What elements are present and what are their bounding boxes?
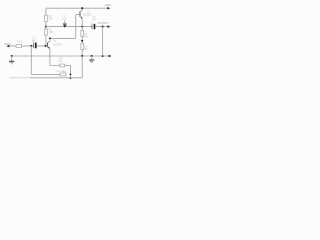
resistor R4 xyxy=(81,30,84,36)
node T2 collector at rail xyxy=(81,7,83,9)
T2 emitter lead with PNP arrow xyxy=(80,16,82,26)
wire return up to ground node xyxy=(81,56,83,78)
transistor T1 xyxy=(48,38,50,65)
node divider bottom xyxy=(102,55,104,57)
wire node to R1 xyxy=(45,27,47,29)
wire output tap vertical xyxy=(102,27,104,56)
wire C1 to T1 base xyxy=(37,45,48,47)
svg-text:BC559C: BC559C xyxy=(83,15,92,17)
ground rail xyxy=(12,55,109,57)
T1 collector lead xyxy=(48,38,50,43)
wire top +30V rail xyxy=(46,7,108,9)
ground rail arrowhead xyxy=(109,55,112,58)
wire R3 to C1 xyxy=(22,45,34,47)
node divider tap xyxy=(102,26,104,28)
wire R6 corner down xyxy=(70,66,72,79)
wire signal return bottom xyxy=(10,77,31,79)
potentiometer set gain xyxy=(60,73,66,76)
svg-text:SET GAIN: SET GAIN xyxy=(56,70,66,73)
node pot wiper xyxy=(70,74,72,76)
node R5 ground xyxy=(81,55,83,57)
T1 base bar xyxy=(47,42,49,47)
resistor R2 xyxy=(45,15,48,21)
node ground left xyxy=(11,55,13,57)
node output junction xyxy=(81,26,83,28)
T2 base lead xyxy=(76,14,80,16)
wire mid horizontal (feedback/output) xyxy=(46,26,92,28)
node T1 collector xyxy=(49,37,51,39)
node ground mid xyxy=(91,55,93,57)
wire input node down to gain pot xyxy=(30,46,32,75)
wire R2 to node xyxy=(45,21,47,26)
wire R5 to ground rail xyxy=(81,50,83,56)
resistor R1 xyxy=(45,29,48,35)
resistor R3 xyxy=(16,45,22,48)
svg-text:R3 1k: R3 1k xyxy=(17,41,24,43)
ground symbol left xyxy=(9,56,14,64)
capacitor C2 xyxy=(63,21,67,28)
T2 base bar xyxy=(79,11,81,16)
wire T1 collector to T2 base xyxy=(50,37,76,39)
node input shunt xyxy=(30,45,32,47)
svg-text:BC549C: BC549C xyxy=(53,45,62,47)
svg-text:10µ: 10µ xyxy=(62,18,67,20)
svg-text:1M0: 1M0 xyxy=(49,32,54,34)
node R6 to return xyxy=(69,77,71,79)
+30V arrowhead xyxy=(107,7,110,10)
svg-text:10µ: 10µ xyxy=(92,20,97,22)
OUTPUT arrowhead xyxy=(107,25,110,28)
capacitor C1 xyxy=(33,41,37,48)
wire input to R3 xyxy=(9,45,16,47)
svg-text:OUTPUT: OUTPUT xyxy=(98,21,109,25)
T1 emitter lead with NPN arrow xyxy=(48,47,50,66)
wire left bias chain vertical top xyxy=(45,8,47,15)
capacitor C3 xyxy=(91,22,95,29)
wire R4 to node xyxy=(81,37,83,44)
resistor R6 xyxy=(60,64,65,67)
transistor T2 xyxy=(76,8,83,26)
node bias-mid xyxy=(45,26,47,28)
wire T2 emitter chain xyxy=(81,27,83,31)
resistor R5 xyxy=(81,43,84,49)
node T1 base bias xyxy=(44,45,46,47)
T2 collector lead xyxy=(80,8,82,12)
ground symbol mid xyxy=(89,56,94,63)
wire R1 to base node xyxy=(45,35,47,46)
INPUT arrowhead xyxy=(6,45,9,48)
wire T1 emitter horizontal xyxy=(50,65,71,67)
node emitter divider xyxy=(81,40,83,42)
wire T2 base vertical xyxy=(75,15,77,39)
svg-text:+30V: +30V xyxy=(104,3,112,7)
